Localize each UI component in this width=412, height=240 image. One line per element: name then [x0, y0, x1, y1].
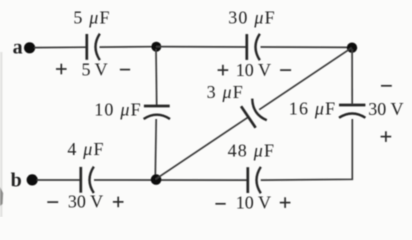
polarity plus of C2 [218, 65, 229, 76]
capacitor C1 5uF [87, 34, 100, 60]
polarity plus of C1 [56, 64, 67, 75]
svg-text:16 μF: 16 μF [289, 99, 337, 119]
wire C6 to bottom-right corner [261, 119, 353, 180]
svg-text:30 V: 30 V [68, 192, 103, 212]
capacitor C6 48uF [248, 167, 261, 193]
wire J1 to C2 [156, 46, 246, 48]
svg-text:10 V: 10 V [236, 193, 271, 213]
polarity minus of C7 4uF [47, 201, 58, 203]
svg-text:3 μF: 3 μF [207, 82, 244, 102]
capacitor C3 10uF [144, 106, 170, 119]
capacitor C2 30uF [247, 34, 260, 60]
svg-text:30 μF: 30 μF [228, 8, 276, 28]
scan artifact left edge streak [0, 52, 3, 217]
svg-text:b: b [11, 170, 22, 192]
wire C3 down to junction J3 [154, 119, 157, 177]
wire J1 down to C3 [155, 49, 158, 106]
node b dot [27, 174, 38, 185]
svg-text:30 V: 30 V [368, 99, 403, 119]
polarity plus of C5 [381, 131, 392, 142]
wire C2 to junction J2 [261, 46, 350, 48]
svg-text:4 μF: 4 μF [67, 139, 104, 159]
wire diagonal upper C4 to J2 [259, 48, 352, 110]
polarity minus of C1 [120, 69, 130, 71]
svg-text:5 μF: 5 μF [73, 8, 110, 28]
svg-text:48 μF: 48 μF [228, 140, 276, 160]
wire C1 to junction J1 [100, 46, 154, 48]
junction J3 dot [151, 174, 162, 185]
wire J2 down to C5 [351, 49, 353, 105]
svg-text:10 V: 10 V [236, 60, 271, 80]
polarity minus of C2 [280, 69, 291, 71]
junction J1 dot [151, 42, 161, 52]
wire diagonal lower J3 to C4 [155, 117, 247, 179]
wire a to C1 [34, 46, 87, 48]
wire b to C7 [37, 179, 82, 181]
polarity minus of C6 [215, 203, 225, 205]
polarity plus of C6 [280, 197, 291, 208]
capacitor C7 4uF [81, 167, 94, 193]
wire C7 to C6 [94, 179, 247, 181]
polarity plus of C7 [113, 197, 124, 208]
junction J2 dot [347, 43, 357, 53]
svg-text:a: a [13, 36, 23, 58]
svg-text:10 μF: 10 μF [94, 99, 142, 119]
capacitor C4 3uF [241, 99, 267, 128]
node a dot [24, 42, 35, 53]
scan artifact bottom-left blob [0, 187, 3, 206]
capacitor C5 16uF [339, 105, 365, 118]
svg-text:5 V: 5 V [82, 60, 108, 80]
polarity minus of C5 [381, 85, 392, 87]
